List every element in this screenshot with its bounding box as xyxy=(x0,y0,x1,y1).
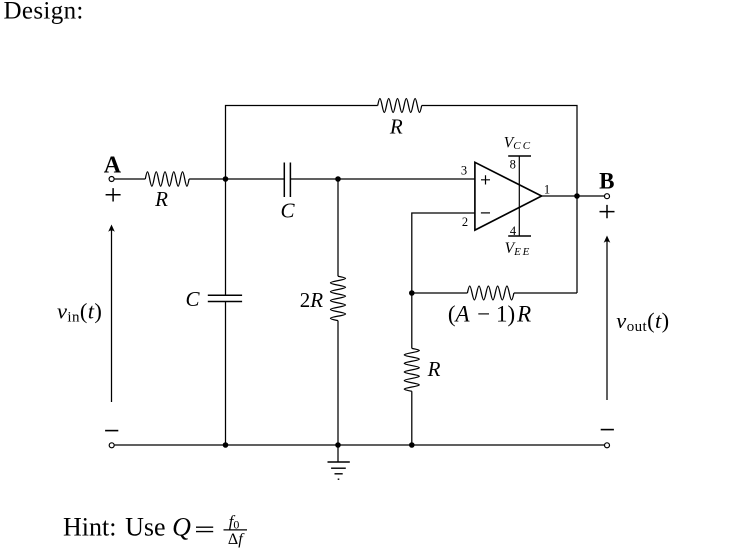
resistor R (input) xyxy=(145,172,189,186)
hint fraction bar xyxy=(224,529,248,531)
svg-text:Hint: Use Q: Hint: Use Q xyxy=(63,513,191,542)
node: junction dot at input/R junction xyxy=(223,176,229,182)
wire: main input row y=179 xyxy=(115,178,475,180)
arrow vout xyxy=(604,236,611,401)
svg-text:2R: 2R xyxy=(300,288,324,312)
svg-text:3: 3 xyxy=(461,164,467,178)
wire: bottom rail y=445 xyxy=(115,444,605,446)
capacitor C (shunt) plates xyxy=(208,295,242,301)
resistor 2R xyxy=(331,276,346,320)
wire: top feedback loop xyxy=(226,106,578,294)
ground symbol xyxy=(328,445,350,479)
label + (port B polarity) xyxy=(600,205,615,218)
svg-text:R: R xyxy=(427,357,441,381)
svg-text:C: C xyxy=(185,287,200,311)
svg-text:Design:: Design: xyxy=(4,0,84,24)
terminal A open circle xyxy=(109,177,114,182)
terminal B open circle xyxy=(605,194,610,199)
node: bottom dot R xyxy=(409,442,415,448)
node: output junction dot xyxy=(574,193,580,199)
label - input (inside op-amp) xyxy=(481,212,490,214)
wire: inverting input to feedback node xyxy=(412,213,475,293)
label - (port A bottom polarity) xyxy=(105,430,118,432)
svg-text:8: 8 xyxy=(510,158,516,172)
resistor R (to ground) xyxy=(404,348,419,391)
VCC bar xyxy=(508,155,531,157)
node: junction dot after series C xyxy=(335,176,341,182)
wire: 2R branch x=338 xyxy=(337,179,339,445)
svg-text:1: 1 xyxy=(544,183,550,197)
label - (port B bottom polarity) xyxy=(601,429,614,431)
arrow vin xyxy=(108,225,115,403)
hint equals sign xyxy=(196,527,213,531)
svg-text:2: 2 xyxy=(462,215,468,229)
label + (port A polarity) xyxy=(106,188,121,201)
resistor R (top feedback) xyxy=(378,99,422,113)
wire: op-amp output xyxy=(542,195,605,197)
terminal bottom-right open circle xyxy=(605,443,610,448)
capacitor C (series) plates xyxy=(284,163,290,198)
svg-text:A: A xyxy=(104,152,122,178)
svg-text:C: C xyxy=(280,199,295,223)
VEE bar xyxy=(508,235,531,237)
svg-text:Δf: Δf xyxy=(228,531,245,548)
node: bottom dot shunt C xyxy=(223,442,229,448)
svg-text:4: 4 xyxy=(510,224,517,238)
resistor (A-1)R xyxy=(467,286,514,300)
op-amp U1 triangle xyxy=(475,162,542,230)
svg-text:B: B xyxy=(599,169,614,194)
svg-text:vin(t): vin(t) xyxy=(57,298,102,325)
node: feedback node dot xyxy=(409,290,415,296)
wire: R branch x=411.8 xyxy=(411,293,413,445)
terminal bottom-left open circle xyxy=(109,443,114,448)
wire: (A-1)R feedback row y=293 xyxy=(412,292,577,294)
svg-text:R: R xyxy=(154,187,168,211)
label + input (inside op-amp) xyxy=(481,175,490,184)
power rail VCC xyxy=(518,156,520,236)
node: bottom dot 2R / ground xyxy=(335,442,341,448)
wire: shunt C branch x=225.5 xyxy=(225,179,227,445)
svg-text:R: R xyxy=(389,115,403,139)
svg-text:(A − 1) R: (A − 1) R xyxy=(448,302,531,327)
